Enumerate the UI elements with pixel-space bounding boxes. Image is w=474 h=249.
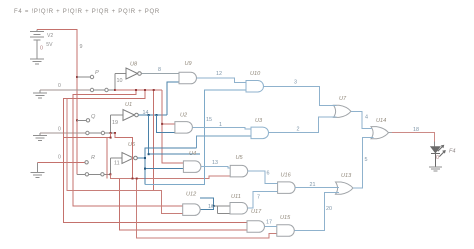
wire net 12 [197,78,247,83]
svg-text:0: 0 [40,46,43,52]
wire !R branch to U4 in2 [145,168,183,170]
and-gate U5 [230,165,248,177]
svg-text:U16: U16 [281,173,292,179]
wire net 2 [269,117,337,133]
wire ground to Q switch [40,132,86,134]
svg-text:U12: U12 [186,192,197,198]
and-gate U4 [183,161,201,173]
switch P [77,74,126,92]
wire net 8 U8 to U9 [141,73,179,75]
svg-text:3: 3 [294,80,297,86]
svg-text:U3: U3 [255,118,263,124]
ground P row [33,90,47,98]
svg-text:V2: V2 [47,33,53,39]
node R branch [136,178,138,180]
svg-text:U13: U13 [341,173,352,179]
svg-text:U17: U17 [251,209,262,215]
svg-text:18: 18 [413,127,419,133]
svg-text:U15: U15 [280,215,291,221]
node R switch pole [109,173,111,175]
svg-text:F4: F4 [449,149,456,155]
node !R a [144,157,146,159]
wire net 5 [353,138,374,189]
inverter U6 [122,153,137,164]
svg-text:R: R [91,155,95,161]
svg-text:15: 15 [206,117,212,123]
wire net 20 [294,192,339,230]
svg-text:17: 17 [266,220,272,226]
wire 5V net 9 [37,30,77,175]
node net14 b [156,114,158,116]
node 5V to Q switch [76,119,78,121]
switch R [77,158,122,176]
wire net P branch B to U17 in1 [64,90,247,222]
ground R row [31,162,45,177]
node net16 [213,205,215,207]
svg-text:21: 21 [310,182,316,188]
svg-text:6: 6 [267,171,270,177]
svg-text:5: 5 [365,157,368,163]
svg-text:2: 2 [297,127,300,133]
ground below battery [30,59,44,64]
svg-text:Q: Q [91,114,96,120]
wire net R run to U5 in2 [67,99,277,238]
or-gate U13 [336,182,354,194]
node Q branch [110,137,112,139]
wire net P branch C to U4 in1 [153,90,155,191]
svg-text:0: 0 [436,155,439,161]
svg-text:8: 8 [158,67,161,73]
wire net 17 U17 to U15 [265,226,277,228]
and-gate U3 [251,127,269,139]
svg-text:4: 4 [365,115,368,121]
wire net 15 to U10 in2 [145,90,246,185]
wire net P branch D to U2 in1 [162,90,183,163]
svg-text:9: 9 [80,44,83,50]
svg-text:19: 19 [112,120,118,126]
wire net P branch A to U12 in1 [73,90,183,206]
svg-text:1: 1 [219,122,222,128]
node !Q b1 low [148,153,150,155]
wire net 1 [192,128,251,129]
or-gate U7 [334,105,352,117]
svg-text:U11: U11 [231,194,241,200]
battery V2 [30,30,44,59]
node Q bus branch [132,178,134,180]
wire net !R output [137,148,196,185]
wire ground to P switch [40,89,90,91]
svg-text:20: 20 [326,206,332,212]
wire net to U12 in2 [67,99,154,191]
inverter U8 [126,68,141,79]
node Q switch pole a [110,132,112,134]
node net14 a [148,114,150,116]
svg-text:5V: 5V [46,42,53,48]
inverter U1 [123,110,138,121]
and-gate U15 [277,225,295,237]
wire net 7 [248,192,278,209]
svg-text:U1: U1 [125,102,132,108]
svg-text:13: 13 [212,160,218,166]
svg-text:U4: U4 [189,151,196,157]
wire net Q branches [64,133,247,230]
node P branch A [135,89,137,91]
and-gate U10 [246,81,264,93]
wire net 6 [248,171,278,184]
switch Q [77,115,123,135]
and-gate U16 [278,182,295,194]
wire net 4 [351,111,372,128]
and-gate U17 [247,221,265,233]
svg-text:U7: U7 [339,96,347,102]
wire !R down vertical [144,158,146,185]
svg-text:U2: U2 [180,113,188,119]
wire net 13 [201,167,230,168]
wire net to U3 in2 [197,136,251,148]
svg-text:11: 11 [114,161,120,167]
node !R b [144,168,146,170]
svg-text:U5: U5 [236,155,244,161]
node P branch B [144,89,146,91]
svg-text:P: P [95,70,99,76]
wire net 14 Q-inverter output [138,114,167,116]
ground Q row [33,133,47,141]
node P branch D split [161,123,163,125]
wire net 14 up to U9 [167,82,179,115]
wire net R branch to U15 in2 [137,179,277,239]
and-gate U11 [230,203,248,215]
svg-text:0: 0 [58,155,61,161]
svg-text:0: 0 [58,127,61,133]
svg-text:0: 0 [58,83,61,89]
svg-text:7: 7 [257,195,260,201]
and-gate U12 [183,204,201,216]
node P branch C [153,89,155,91]
svg-text:12: 12 [216,71,222,77]
svg-text:U14: U14 [376,118,386,124]
and-gate U2 [175,122,193,134]
wire net P main run [64,90,247,222]
svg-text:U10: U10 [250,71,261,77]
svg-text:F4 = !P!Q!R + P!Q!R + P!QR + P: F4 = !P!Q!R + P!Q!R + P!QR + PQ!R + PQR [14,9,160,15]
LED F4 [431,145,446,167]
wire net 16 loop [200,198,214,209]
wire ground to R switch [38,161,85,163]
wire !Q branch b2 to U2 in2 [157,115,175,132]
wire !R up branch to U3 in2 [145,148,197,158]
node 5V to P switch [76,76,78,78]
wire !Q branch b1 [149,115,200,154]
svg-text:U8: U8 [130,62,138,68]
svg-text:10: 10 [117,78,123,84]
svg-text:16: 16 [208,204,214,210]
or-gate U14 [371,127,389,139]
wire net 18 to LED [388,132,392,134]
ground below LED [429,167,442,171]
and-gate U9 [179,72,197,84]
wire net 21 [295,187,339,189]
node Q switch pole b [114,132,116,134]
wire net 3 [264,86,337,105]
node P switch pole [114,89,116,91]
svg-text:U9: U9 [185,61,192,67]
